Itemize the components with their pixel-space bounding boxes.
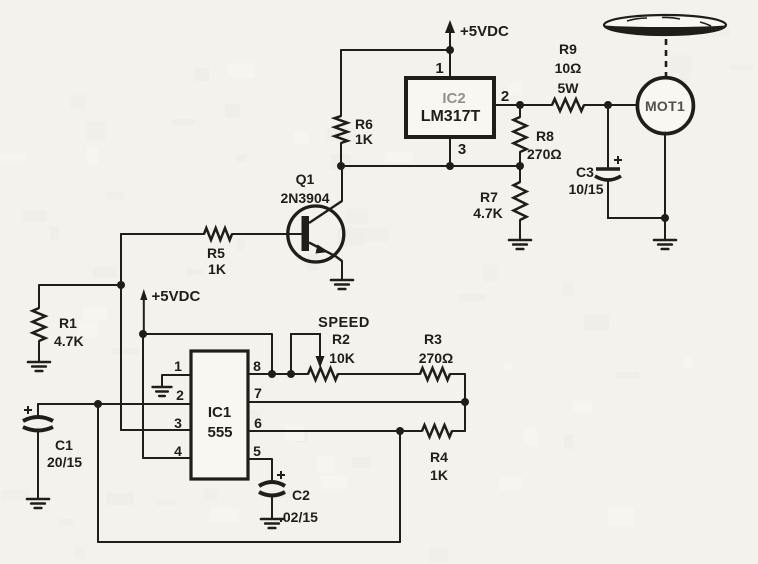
wire R3 right	[450, 374, 465, 431]
wire ADJ rail	[341, 165, 520, 167]
wire R6 top	[340, 50, 342, 116]
node pin8-b	[287, 370, 295, 378]
svg-text:1: 1	[174, 358, 182, 374]
ground (C1)	[27, 499, 49, 508]
wire IC2 pin1	[449, 50, 451, 78]
svg-text:R3: R3	[424, 331, 442, 347]
svg-text:4.7K: 4.7K	[54, 333, 84, 349]
node R8 top	[516, 101, 524, 109]
svg-text:R8: R8	[536, 128, 554, 144]
power +5VDC (mid)	[140, 288, 200, 334]
wire R1 bottom	[38, 341, 40, 362]
svg-text:270Ω: 270Ω	[419, 350, 454, 366]
svg-text:6: 6	[254, 415, 262, 431]
svg-text:20/15: 20/15	[47, 454, 82, 470]
svg-text:IC2: IC2	[442, 90, 465, 107]
label SPEED	[318, 315, 370, 331]
wire R2-R3	[338, 373, 420, 375]
resistor R9	[552, 99, 584, 111]
potentiometer R2	[308, 368, 338, 380]
ground (pin1)	[153, 387, 172, 396]
wire R7 top	[519, 166, 521, 182]
node pin8-a	[268, 370, 276, 378]
pin 7 label IC1	[254, 385, 262, 401]
timer IC1 555	[191, 351, 248, 479]
resistor R4	[422, 425, 452, 437]
wire Vcc rail	[143, 334, 272, 374]
svg-text:C3: C3	[576, 164, 594, 180]
pin 4 label IC1	[174, 443, 182, 459]
motor MOT1	[637, 78, 693, 134]
resistor R5	[204, 228, 232, 240]
svg-text:5W: 5W	[558, 80, 580, 96]
node pin7-R3	[461, 398, 469, 406]
wire R4 branch down	[399, 431, 401, 542]
svg-text:R1: R1	[59, 315, 77, 331]
pin 5 label IC1	[253, 443, 261, 459]
pin 1 label IC2	[435, 60, 443, 77]
node at +5VDC rail	[446, 46, 454, 54]
wire C3 top	[607, 105, 609, 167]
label C1 20/15	[47, 437, 82, 470]
wire Q1 collector	[341, 166, 343, 201]
node C3 top	[604, 101, 612, 109]
label R6 1K	[355, 116, 373, 147]
svg-text:2: 2	[501, 88, 509, 105]
pin 2 label IC2	[501, 88, 509, 105]
label R2 10K	[329, 331, 355, 366]
pin 2 label IC1	[176, 387, 184, 403]
svg-text:1K: 1K	[355, 131, 373, 147]
wire R7 bottom	[519, 220, 521, 240]
wiper bracket R2	[291, 334, 325, 374]
resistor R6	[335, 116, 348, 143]
wire pin1	[162, 375, 191, 387]
wire left bus	[120, 234, 122, 430]
wire R8 top	[519, 105, 521, 117]
svg-text:R5: R5	[207, 245, 225, 261]
svg-text:2N3904: 2N3904	[280, 190, 329, 206]
wire R9 to motor	[584, 104, 637, 106]
svg-text:3: 3	[458, 141, 466, 158]
wire C3 bottom	[608, 180, 665, 218]
svg-text:10K: 10K	[329, 350, 355, 366]
svg-text:+5VDC: +5VDC	[460, 23, 509, 40]
svg-text:+5VDC: +5VDC	[152, 288, 201, 305]
wire pin6	[248, 430, 422, 432]
label R4 1K	[430, 449, 448, 483]
svg-text:Q1: Q1	[296, 171, 315, 187]
svg-text:C1: C1	[55, 437, 73, 453]
svg-text:R4: R4	[430, 449, 448, 465]
svg-text:LM317T: LM317T	[421, 108, 481, 125]
label C3 10/15	[568, 164, 603, 197]
node ADJ-right	[516, 162, 524, 170]
svg-text:270Ω: 270Ω	[527, 146, 562, 162]
svg-text:.02/15: .02/15	[279, 509, 318, 525]
pin 1 label IC1	[174, 358, 182, 374]
label R5 1K	[207, 245, 226, 277]
svg-text:1K: 1K	[208, 261, 226, 277]
capacitor C1	[23, 406, 53, 431]
pin 3 label IC2	[458, 141, 466, 158]
power +5VDC (top)	[445, 20, 509, 50]
pin 3 label IC1	[174, 415, 182, 431]
svg-text:R7: R7	[480, 189, 498, 205]
svg-text:4.7K: 4.7K	[473, 205, 503, 221]
ground (motor)	[654, 240, 676, 249]
label R1 4.7K	[54, 315, 84, 349]
svg-text:3: 3	[174, 415, 182, 431]
svg-text:10/15: 10/15	[568, 181, 603, 197]
label R8 270ohm	[527, 128, 562, 162]
wire pin3 feed	[121, 429, 191, 431]
capacitor C3	[595, 156, 622, 180]
svg-text:SPEED: SPEED	[318, 315, 370, 331]
node R1 branch	[117, 281, 125, 289]
node ADJ-mid	[446, 162, 454, 170]
node +5VDC mid	[139, 330, 147, 338]
svg-text:4: 4	[174, 443, 182, 459]
svg-text:10Ω: 10Ω	[555, 60, 582, 76]
paper texture	[331, 154, 351, 170]
wire pin7	[248, 401, 465, 403]
wire R8 bottom	[519, 152, 521, 166]
wire Q1 base	[232, 233, 301, 235]
svg-text:2: 2	[176, 387, 184, 403]
resistor R1	[33, 308, 46, 341]
wire C2 bottom	[271, 496, 273, 519]
wire R4 right	[452, 430, 465, 432]
node R4 left	[396, 427, 404, 435]
svg-text:R6: R6	[355, 116, 373, 132]
svg-text:C2: C2	[292, 487, 310, 503]
svg-text:MOT1: MOT1	[645, 98, 685, 114]
svg-text:R9: R9	[559, 41, 577, 57]
wire C1 top	[37, 404, 39, 416]
wire top rail	[341, 49, 450, 51]
resistor R8	[514, 117, 527, 152]
wire R6 bottom	[340, 143, 342, 166]
wire C1-branch down	[97, 404, 99, 542]
node C1 branch	[94, 400, 102, 408]
disc (motor load)	[604, 15, 726, 35]
svg-text:1: 1	[435, 60, 443, 77]
resistor R7	[514, 182, 527, 220]
ground (C2)	[261, 519, 283, 528]
svg-text:7: 7	[254, 385, 262, 401]
label R7 4.7K	[473, 189, 503, 221]
svg-text:IC1: IC1	[208, 404, 231, 421]
wire Q1 emitter	[341, 261, 343, 280]
pin 8 label IC1	[253, 358, 261, 374]
transistor Q1	[288, 201, 344, 262]
wire Vcc to pin4	[142, 334, 144, 458]
capacitor C2	[259, 471, 285, 496]
wire pin2	[38, 403, 191, 405]
wire pin5	[248, 459, 272, 481]
label R3 270ohm	[419, 331, 454, 366]
ground (R1)	[28, 362, 50, 371]
svg-text:8: 8	[253, 358, 261, 374]
wire bottom rail	[98, 541, 400, 543]
pin 6 label IC1	[254, 415, 262, 431]
resistor R3	[420, 368, 450, 380]
svg-text:R2: R2	[332, 331, 350, 347]
wire IC2 pin2	[494, 104, 552, 106]
ground (Q1)	[331, 280, 353, 289]
label R9 10ohm 5W	[555, 41, 582, 96]
label C2 .02/15	[279, 487, 318, 525]
svg-text:1K: 1K	[430, 467, 448, 483]
svg-text:555: 555	[207, 424, 232, 441]
wire motor ground	[664, 133, 666, 241]
ground (R7)	[509, 240, 531, 249]
node ADJ-left	[337, 162, 345, 170]
label Q1 2N3904	[280, 171, 329, 206]
wire IC2 pin3	[449, 137, 451, 166]
regulator IC2 LM317T	[406, 78, 494, 137]
wire pin8	[248, 373, 308, 375]
node motor-gnd	[661, 214, 669, 222]
wire R5 left	[121, 233, 204, 235]
svg-text:5: 5	[253, 443, 261, 459]
wire pin4 feed	[143, 457, 191, 459]
wire R1 branch	[39, 285, 121, 308]
wire C1 bottom	[37, 430, 39, 499]
wire shaft (dashed)	[665, 39, 668, 76]
